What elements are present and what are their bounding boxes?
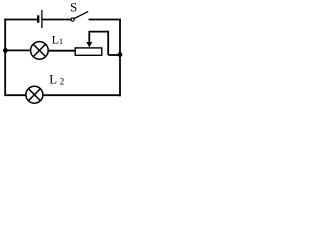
svg-text:L: L (49, 72, 57, 86)
svg-text:1: 1 (59, 36, 63, 46)
svg-text:S: S (70, 0, 77, 14)
svg-text:2: 2 (60, 77, 64, 87)
svg-text:L: L (52, 33, 59, 47)
